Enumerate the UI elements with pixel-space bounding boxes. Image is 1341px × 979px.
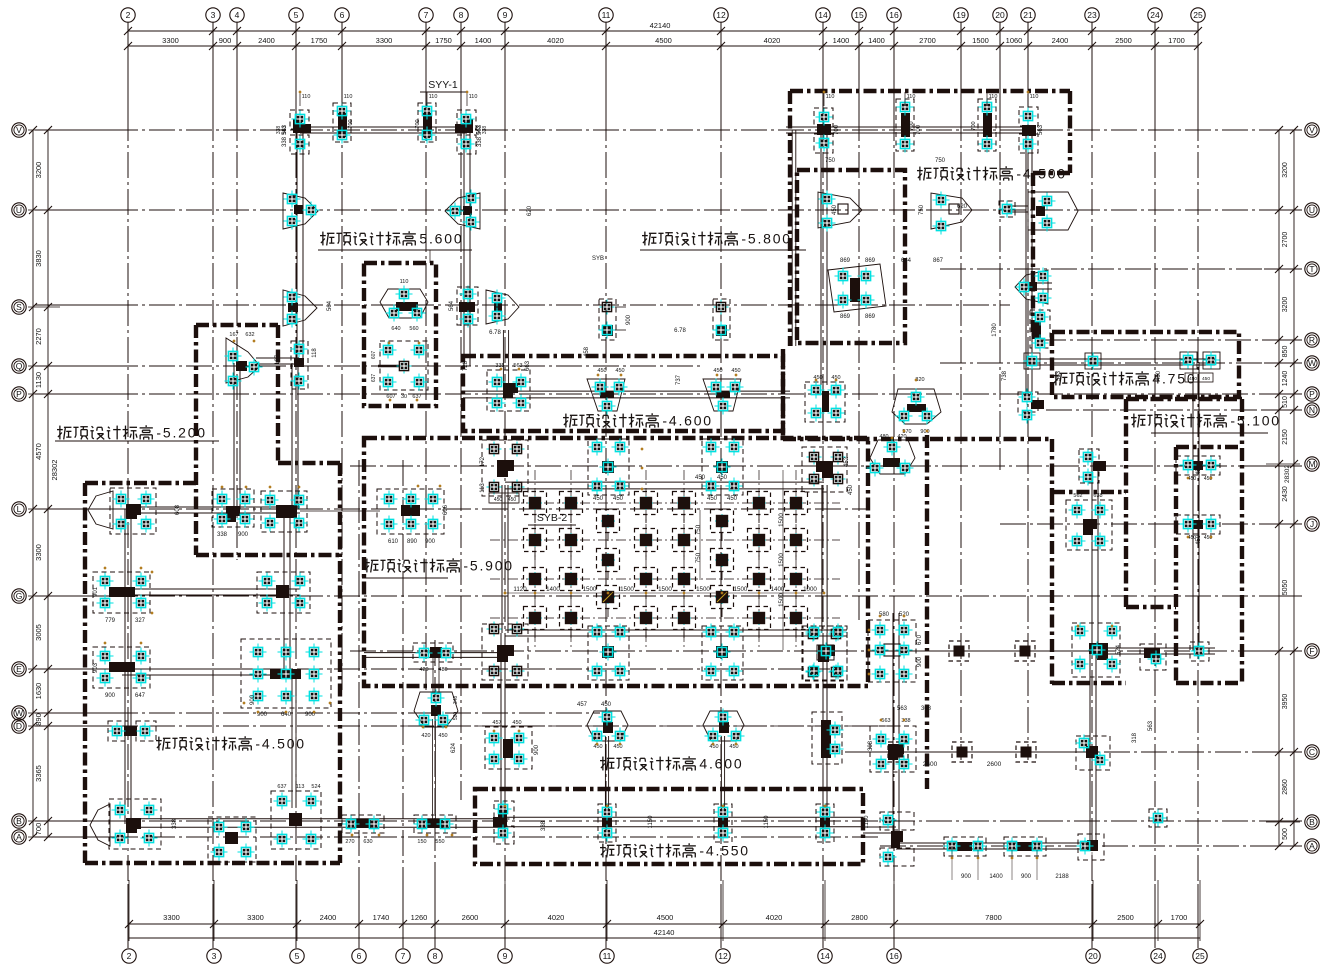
pile cap at 2/L (corner) xyxy=(88,488,156,534)
pile cap at 2/G xyxy=(93,572,150,624)
svg-text:12: 12 xyxy=(718,951,728,961)
svg-text:11: 11 xyxy=(602,10,611,20)
svg-text:750: 750 xyxy=(935,158,946,164)
pile cap at 8/V (corner) xyxy=(455,110,488,154)
pile pair at 14/A xyxy=(816,804,834,843)
svg-text:564: 564 xyxy=(449,300,455,311)
beam center col 9 lower xyxy=(500,633,502,827)
svg-text:110: 110 xyxy=(1030,94,1039,100)
zone outline bottom-left -4.500 right edge xyxy=(338,463,342,863)
svg-text:2: 2 xyxy=(126,10,131,20)
pile cap at 7/V xyxy=(415,103,436,144)
bottom dimension line xyxy=(129,923,1200,925)
svg-text:450: 450 xyxy=(508,497,517,503)
svg-text:700: 700 xyxy=(971,121,977,130)
svg-text:563: 563 xyxy=(513,363,522,369)
svg-text:-4.500: -4.500 xyxy=(1016,166,1067,182)
svg-text:1630: 1630 xyxy=(34,683,43,700)
matrix axis x=759 xyxy=(758,470,760,650)
svg-text:110: 110 xyxy=(826,94,835,100)
svg-text:2400: 2400 xyxy=(1052,36,1069,45)
pile cap at 23/F (corner) xyxy=(1072,623,1121,678)
grid line 23 (vertical) xyxy=(1091,22,1093,115)
grid line 10b (vertical) xyxy=(434,640,436,948)
svg-text:3300: 3300 xyxy=(247,913,264,922)
svg-text:450: 450 xyxy=(601,702,612,708)
svg-text:15: 15 xyxy=(854,10,864,20)
svg-text:450: 450 xyxy=(717,475,728,481)
svg-text:8: 8 xyxy=(459,10,464,20)
svg-text:737: 737 xyxy=(676,374,682,385)
svg-text:903: 903 xyxy=(93,662,99,673)
pile cap at 23/A xyxy=(1077,834,1105,860)
svg-text:2500: 2500 xyxy=(1115,36,1132,45)
svg-text:6.78: 6.78 xyxy=(674,328,686,334)
svg-text:632: 632 xyxy=(245,332,254,338)
svg-text:4020: 4020 xyxy=(547,36,564,45)
beam row U right short xyxy=(1007,205,1028,207)
svg-text:1400: 1400 xyxy=(475,36,492,45)
grid line 9 (vertical) xyxy=(504,22,506,115)
svg-text:450: 450 xyxy=(832,204,838,215)
pile cap at 23/J xyxy=(1066,493,1112,550)
grid line B (horizontal) xyxy=(35,820,112,822)
svg-text:700: 700 xyxy=(834,124,840,135)
svg-text:338: 338 xyxy=(477,136,483,147)
pile pair at 2/D xyxy=(108,721,156,741)
svg-text:500: 500 xyxy=(1282,828,1289,840)
svg-text:113: 113 xyxy=(296,784,305,790)
pile cap 8/S east (tri) xyxy=(486,290,519,325)
svg-text:606: 606 xyxy=(443,504,449,515)
label elevation 5.600 xyxy=(320,231,463,247)
svg-text:563: 563 xyxy=(897,706,908,712)
svg-text:6: 6 xyxy=(357,951,362,961)
beam col 11 lower xyxy=(604,736,606,812)
pile cap at 11/P (tri-down) xyxy=(587,368,628,415)
zone outline -5.200 bottom edge xyxy=(196,553,341,557)
pile cap 6-pile at 7/L xyxy=(377,489,444,545)
grid line 24 (vertical) xyxy=(1154,22,1156,115)
svg-text:2150: 2150 xyxy=(1282,429,1289,445)
beam column axis 23 upper xyxy=(1091,466,1093,650)
black cap at 21/F xyxy=(1015,641,1035,661)
svg-text:3300: 3300 xyxy=(163,913,180,922)
pile cap at 23/M (corner) xyxy=(1079,449,1106,486)
zone outline top-right -4.500 top edge xyxy=(790,89,1070,93)
svg-text:SYB: SYB xyxy=(592,256,604,262)
svg-text:167: 167 xyxy=(229,332,238,338)
svg-text:1000: 1000 xyxy=(803,586,817,593)
svg-text:457: 457 xyxy=(492,720,501,726)
svg-text:450: 450 xyxy=(1196,534,1202,545)
zone outline center -5.900 rect xyxy=(364,438,868,686)
pile cap at 5/B xyxy=(271,784,321,849)
zone outline -5.200 top edge xyxy=(196,323,278,327)
pile pair at 7/F xyxy=(413,643,455,673)
svg-text:1500: 1500 xyxy=(734,586,748,593)
matrix axis y=540 xyxy=(490,539,840,541)
pile cap at 12/P (tri-down) xyxy=(703,368,744,415)
grid line M (horizontal) xyxy=(350,465,1302,467)
svg-text:16: 16 xyxy=(889,951,899,961)
svg-text:450: 450 xyxy=(613,496,624,502)
svg-text:728: 728 xyxy=(463,360,469,371)
svg-text:450: 450 xyxy=(848,484,854,495)
beam column axis 5 low xyxy=(291,674,293,808)
svg-text:2600: 2600 xyxy=(923,761,938,768)
pile pair at 11/A xyxy=(598,804,616,843)
svg-text:M: M xyxy=(1308,459,1315,469)
svg-text:564: 564 xyxy=(327,300,333,311)
beam row A bottom center xyxy=(505,816,863,818)
grid line R (horizontal) xyxy=(1040,339,1302,341)
svg-text:450: 450 xyxy=(1188,476,1197,482)
svg-text:5: 5 xyxy=(295,951,300,961)
pile cap at 6/V xyxy=(333,103,354,144)
svg-text:28302: 28302 xyxy=(50,460,59,481)
label elevation -4.600 mid xyxy=(563,413,713,429)
svg-text:338: 338 xyxy=(282,136,288,147)
zone outline -5.200 left edge xyxy=(194,325,198,555)
svg-text:890: 890 xyxy=(407,539,418,545)
svg-text:450: 450 xyxy=(709,744,718,750)
svg-text:420: 420 xyxy=(897,434,906,440)
beam center row F xyxy=(505,629,847,631)
pile cap at 2/B (corner) xyxy=(90,799,161,849)
grid line L (horizontal) xyxy=(35,508,112,510)
svg-text:750: 750 xyxy=(695,552,702,563)
svg-text:900: 900 xyxy=(920,429,929,435)
pile pair on A right 1 xyxy=(944,837,987,856)
grid line N (horizontal) xyxy=(1046,409,1302,411)
svg-text:SYB-2: SYB-2 xyxy=(537,512,568,524)
svg-text:779: 779 xyxy=(105,618,116,624)
svg-text:524: 524 xyxy=(1116,644,1122,655)
grid line 6a (vertical) xyxy=(341,22,343,115)
svg-text:9: 9 xyxy=(503,951,508,961)
pile cap at 5/S (tri) xyxy=(283,289,317,328)
matrix axis x=535 xyxy=(534,470,536,650)
pile cap at 11/F xyxy=(588,624,629,681)
pile cap at 9/F (corner) xyxy=(482,622,528,681)
grid line U (horizontal) xyxy=(35,209,112,211)
svg-text:670: 670 xyxy=(917,634,923,645)
pile pair at 12/S xyxy=(713,299,731,340)
svg-text:B: B xyxy=(1309,817,1315,827)
svg-text:458: 458 xyxy=(584,346,590,357)
svg-text:2270: 2270 xyxy=(34,328,43,345)
pile cap zone A skewed xyxy=(828,258,886,320)
svg-text:2700: 2700 xyxy=(1282,232,1289,248)
bottom dimension ticks and values xyxy=(125,880,1204,941)
label elevation -5.200 xyxy=(57,425,207,441)
pile cap at 16-/E (5-pile) xyxy=(803,626,847,681)
svg-text:4020: 4020 xyxy=(764,36,781,45)
svg-text:869: 869 xyxy=(840,258,851,264)
svg-text:2400: 2400 xyxy=(320,913,337,922)
svg-text:42140: 42140 xyxy=(650,21,671,30)
svg-text:700: 700 xyxy=(415,119,421,128)
svg-text:1500: 1500 xyxy=(658,586,672,593)
pile cap at 5/Q xyxy=(291,341,309,390)
grid line 8 (vertical) xyxy=(460,22,462,115)
pile cap at 16/C xyxy=(870,718,916,773)
svg-text:450: 450 xyxy=(707,496,718,502)
pile cap at 5/U (tri) xyxy=(283,191,320,230)
svg-text:890: 890 xyxy=(34,713,43,726)
svg-text:L: L xyxy=(17,504,22,514)
beam center row F left ext xyxy=(364,652,505,654)
svg-text:42140: 42140 xyxy=(654,928,675,937)
svg-text:-5.900: -5.900 xyxy=(463,558,514,574)
beam row Q left xyxy=(256,357,299,359)
svg-text:900: 900 xyxy=(917,656,923,667)
grid line 21 (vertical) xyxy=(1027,22,1029,115)
beam col 12 lower xyxy=(720,736,722,812)
grid line 15 (vertical) xyxy=(858,22,860,115)
svg-text:563: 563 xyxy=(881,718,890,724)
svg-text:110: 110 xyxy=(907,94,916,100)
svg-text:450: 450 xyxy=(731,368,740,374)
pile cap at 3-4/Q (tri) xyxy=(225,332,263,390)
svg-text:28302: 28302 xyxy=(1284,465,1291,483)
label elevation -5.800 xyxy=(642,231,792,247)
svg-text:J: J xyxy=(1310,519,1314,529)
svg-text:3300: 3300 xyxy=(376,36,393,45)
beam column axis 8 upper xyxy=(463,130,465,366)
pile cap at 21/V (corner) xyxy=(1019,107,1038,153)
pile cap zone A U-row left (tri) xyxy=(818,191,862,232)
svg-text:1120: 1120 xyxy=(513,586,527,593)
single pile at 24/B xyxy=(1149,809,1167,827)
pile cap zone A U-row mid (tri) xyxy=(931,192,972,235)
grid line 12 (vertical) xyxy=(720,22,722,115)
svg-text:450: 450 xyxy=(1196,464,1202,475)
pile cap at 19/V xyxy=(971,99,996,153)
right dimension line inner xyxy=(1278,130,1280,846)
grid line J (horizontal) xyxy=(1000,523,1302,525)
left dimension line inner xyxy=(47,130,49,837)
label elevation -4.500 top xyxy=(917,166,1067,182)
label elevation -5.900 xyxy=(364,558,514,574)
svg-text:450: 450 xyxy=(727,496,738,502)
pile cap zone 5.600 (tri) xyxy=(380,279,428,332)
svg-text:118: 118 xyxy=(312,348,318,358)
right dimension line outer xyxy=(1293,130,1295,846)
svg-text:308: 308 xyxy=(921,706,932,712)
svg-text:3200: 3200 xyxy=(1282,162,1289,178)
svg-text:327: 327 xyxy=(135,618,146,624)
pile cap at 3/A xyxy=(208,817,256,862)
svg-text:3365: 3365 xyxy=(34,765,43,782)
svg-text:1150: 1150 xyxy=(648,815,654,829)
svg-text:-5.800: -5.800 xyxy=(741,231,792,247)
svg-text:420: 420 xyxy=(419,667,428,673)
svg-text:550: 550 xyxy=(435,839,444,845)
beam column axis 12b zoneA xyxy=(791,130,793,346)
svg-text:338: 338 xyxy=(541,820,547,831)
svg-text:640: 640 xyxy=(391,326,400,332)
svg-text:563: 563 xyxy=(282,124,288,135)
svg-text:270: 270 xyxy=(345,839,354,845)
pile pair at 24/W xyxy=(1180,352,1221,383)
svg-text:-4.550: -4.550 xyxy=(699,843,750,859)
svg-text:869: 869 xyxy=(840,314,851,320)
svg-text:3200: 3200 xyxy=(34,162,43,179)
grid line V (horizontal) xyxy=(35,129,112,131)
pile cap at 8/U (tri) xyxy=(445,190,480,231)
label elevation 4.750 xyxy=(1053,371,1196,387)
pile cap at 21/N xyxy=(1018,389,1044,424)
orange dimension ticks xyxy=(103,90,1212,859)
matrix dimension lines xyxy=(503,470,825,650)
pile at 23/W xyxy=(1085,353,1102,370)
svg-text:1740: 1740 xyxy=(373,913,390,922)
pile cap at 14/M (corner) xyxy=(802,447,847,492)
beam row V top-left xyxy=(300,126,467,128)
pile cap at 14/P xyxy=(805,375,845,422)
svg-text:450: 450 xyxy=(695,475,706,481)
svg-text:20: 20 xyxy=(1088,951,1098,961)
pile cap at 14/F (corner) xyxy=(802,624,847,681)
svg-text:1060: 1060 xyxy=(1006,36,1023,45)
pile cap at 15/V xyxy=(896,99,915,153)
axis row D-mid xyxy=(400,725,900,727)
svg-text:450: 450 xyxy=(613,744,622,750)
beam center col 14 xyxy=(821,485,823,633)
zone outline bottom-left -4.500 left edge xyxy=(83,483,87,863)
pile cap 4-pile at 9/C xyxy=(485,720,540,769)
label elevation -4.500 bottom-left xyxy=(156,736,306,752)
svg-text:450: 450 xyxy=(438,733,447,739)
beam row T right short xyxy=(1030,282,1052,284)
svg-text:3300: 3300 xyxy=(162,36,179,45)
svg-text:450: 450 xyxy=(1202,376,1210,382)
svg-text:R: R xyxy=(1309,335,1315,345)
pile at 24/F right xyxy=(1190,642,1209,661)
pile cap zone A S-row xyxy=(1030,309,1050,352)
grid line 16 (vertical) xyxy=(893,22,895,115)
svg-text:624: 624 xyxy=(451,742,457,753)
pile cap at 9/A (corner) xyxy=(493,801,514,845)
svg-text:610: 610 xyxy=(388,539,399,545)
zone outline -5.100 top edge xyxy=(1126,397,1242,401)
svg-text:11: 11 xyxy=(603,951,612,961)
svg-text:2400: 2400 xyxy=(258,36,275,45)
grid line 11 (vertical) xyxy=(605,22,607,115)
svg-text:N: N xyxy=(1309,405,1315,415)
svg-text:901: 901 xyxy=(93,586,99,597)
pile cap tri at 12/D xyxy=(703,709,745,751)
svg-text:620: 620 xyxy=(957,204,968,210)
svg-text:900: 900 xyxy=(961,874,972,880)
beam center row M xyxy=(505,481,824,483)
svg-text:14: 14 xyxy=(818,10,828,20)
svg-text:450: 450 xyxy=(713,368,722,374)
thin link row F blackcaps xyxy=(892,650,1096,652)
svg-text:869: 869 xyxy=(865,314,876,320)
svg-text:700: 700 xyxy=(34,823,43,836)
svg-text:SYY-1: SYY-1 xyxy=(428,79,458,91)
svg-text:E: E xyxy=(16,664,22,674)
pile cap matrix (SYB-2 small caps) xyxy=(524,492,808,639)
pile pair at 7/A xyxy=(414,815,457,845)
pile pair at 11/S xyxy=(599,299,633,340)
grid line T (horizontal) xyxy=(940,268,1302,270)
svg-text:2860: 2860 xyxy=(1282,779,1289,795)
beam column axis 5 upper xyxy=(296,130,298,363)
svg-text:-4.600: -4.600 xyxy=(662,413,713,429)
pile cap at 16/M (tri) xyxy=(867,434,916,477)
svg-text:450: 450 xyxy=(593,496,604,502)
grid line P (horizontal) xyxy=(35,393,112,395)
zone outline bottom-center right edge xyxy=(925,435,929,789)
svg-text:4: 4 xyxy=(235,10,240,20)
svg-text:4570: 4570 xyxy=(34,443,43,460)
svg-text:110: 110 xyxy=(302,94,311,100)
svg-text:9: 9 xyxy=(503,10,508,20)
pile cap at 14/D (corner) xyxy=(812,712,844,764)
svg-text:7800: 7800 xyxy=(985,913,1002,922)
svg-text:450: 450 xyxy=(597,368,606,374)
pile pair at 24/J xyxy=(1176,515,1220,541)
pile cap at 23/C (corner) xyxy=(923,735,1110,771)
beam column axis 5 mid xyxy=(283,509,285,674)
svg-text:110: 110 xyxy=(989,94,998,100)
pile at 21/W xyxy=(1024,353,1041,370)
zone outline -5.200 right edge upper xyxy=(276,325,280,463)
svg-text:12: 12 xyxy=(716,10,726,20)
svg-text:900: 900 xyxy=(250,694,256,705)
pile cap at 12/F xyxy=(702,624,743,681)
grid line 4 (vertical) xyxy=(236,22,238,115)
matrix axis x=571 xyxy=(570,470,572,650)
grid line E (horizontal) xyxy=(35,668,112,670)
zone outline top-right -4.500 left edge xyxy=(788,91,792,346)
grid line W-left (horizontal) xyxy=(35,712,112,714)
beam column axis 4 Q-L xyxy=(233,363,235,509)
svg-text:5.600: 5.600 xyxy=(419,231,463,247)
svg-text:1500: 1500 xyxy=(778,513,785,527)
pile cap at 9/P (corner) xyxy=(487,363,530,412)
svg-text:B: B xyxy=(16,816,22,826)
left dimension line outer xyxy=(32,130,34,837)
top dimension line upper xyxy=(128,30,1198,32)
svg-text:1150: 1150 xyxy=(864,815,870,829)
svg-text:452: 452 xyxy=(844,456,850,467)
beam col 7 lower thin xyxy=(432,719,434,820)
svg-text:110: 110 xyxy=(344,94,353,100)
zone outline -5.100 jog edge xyxy=(1126,605,1176,609)
svg-text:2: 2 xyxy=(127,951,132,961)
pile cap at 14/V (corner) xyxy=(814,108,833,153)
svg-text:6: 6 xyxy=(340,10,345,20)
svg-text:3: 3 xyxy=(211,10,216,20)
misc small rotated dimension texts xyxy=(93,124,1202,831)
svg-text:8: 8 xyxy=(433,951,438,961)
black cap at 16/C xyxy=(888,742,908,762)
beam row F right xyxy=(1096,647,1215,649)
svg-text:2500: 2500 xyxy=(1117,913,1134,922)
svg-text:-4.500: -4.500 xyxy=(255,736,306,752)
pile cap 9-pile at 5/E xyxy=(241,639,331,718)
svg-text:900: 900 xyxy=(534,744,540,755)
svg-text:19: 19 xyxy=(956,10,966,20)
svg-text:563: 563 xyxy=(477,124,483,135)
beam column axis 21 upper xyxy=(1025,130,1027,400)
beam row A bottom right xyxy=(896,842,1093,844)
